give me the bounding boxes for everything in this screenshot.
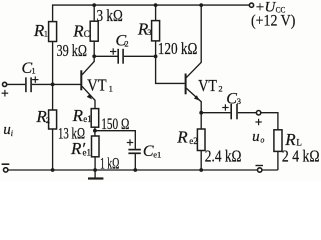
label C2 [116,33,129,50]
node Re2 bottom junction [199,168,203,172]
resistor R3 [152,5,160,56]
svg-text:13 kΩ: 13 kΩ [58,125,85,142]
svg-text:1 kΩ: 1 kΩ [100,156,119,173]
svg-text:R: R [72,21,84,40]
wire top supply rail [53,5,250,22]
svg-text:2: 2 [124,38,128,48]
polarity plus Ce1 [127,139,133,145]
label ui [3,122,13,138]
svg-text:1: 1 [109,83,113,93]
svg-text:e1: e1 [153,149,161,159]
terminal +Ucc [249,3,253,7]
ground [88,170,103,179]
label R2 [35,107,50,126]
svg-text:2: 2 [218,84,222,94]
resistor R'e1 [92,131,100,170]
label C1 [22,60,36,77]
svg-text:150 Ω: 150 Ω [101,116,129,133]
svg-text:2.4 kΩ: 2.4 kΩ [205,147,242,166]
polarity plus output [255,119,261,125]
label C3 [226,91,241,108]
label VT2 [198,76,222,95]
label Re2 [176,128,198,147]
label Re1 [72,106,92,125]
svg-text:e1: e1 [83,114,92,124]
node VT1 collector junction [92,54,96,58]
resistor Re2 [197,113,205,170]
svg-text:VT: VT [198,76,217,95]
label R'e1 [70,139,91,158]
svg-text:e2: e2 [189,136,198,146]
wire input to C1 [7,83,25,85]
label RC [72,21,90,40]
label uo [252,129,264,145]
wire 150 ohm branch to Ce1 [95,131,135,149]
svg-text:e1: e1 [83,148,92,158]
transistor VT1 [81,56,95,108]
node input junction A [51,83,55,87]
wire R3 node down to VT2 base [156,56,185,83]
svg-text:1: 1 [44,28,48,38]
label +12 V [251,13,295,30]
polarity plus C2 [110,48,116,54]
label Ce1 [143,143,161,160]
svg-text:C: C [84,29,90,39]
svg-text:3: 3 [147,27,151,37]
svg-text:1: 1 [31,65,35,75]
node Ce1 bottom junction [133,168,137,172]
terminal output minus [258,168,262,172]
svg-text:2: 2 [46,115,50,125]
label R3 [137,19,152,38]
node VT2 emitter junction [199,111,203,115]
svg-text:3 kΩ: 3 kΩ [97,6,123,25]
svg-text:2 4 kΩ: 2 4 kΩ [282,147,320,166]
svg-text:u: u [3,122,11,138]
resistor RL [274,130,282,170]
terminal output plus [256,111,260,115]
node C2 R3 junction [154,54,158,58]
polarity plus input [2,90,9,97]
label VT1 [87,76,113,95]
polarity plus C3 [222,104,228,110]
polarity minus input [2,163,10,165]
transistor VT2 [186,5,202,113]
node R'e1 bottom junction [93,168,97,172]
node R3 top junction [154,3,158,7]
svg-text:C: C [226,91,237,108]
capacitor C1 [26,77,31,92]
polarity minus output [256,165,264,167]
resistor R2 [49,84,57,170]
resistor R1 [49,22,57,42]
capacitor Ce1 [128,150,140,154]
node R2 bottom junction [51,168,55,172]
wire C2 to VT2 base node [124,55,156,57]
wire C3 to RL [238,113,278,130]
node VT2 collector top junction [199,3,203,7]
terminal input minus [3,168,7,172]
wire R1 bottom to input node [52,42,54,85]
node RC top junction [92,3,96,7]
capacitor C3 [231,104,237,119]
label R1 [33,21,48,40]
wire base VT1 [53,83,81,85]
wire C1 to node A [32,83,53,85]
resistor RC [90,5,98,56]
svg-text:(+12 V): (+12 V) [251,13,295,30]
resistor Re1 [91,109,99,131]
svg-text:u: u [252,129,260,145]
svg-text:i: i [11,129,13,138]
svg-text:R: R [72,106,84,125]
svg-text:R: R [176,128,188,147]
svg-text:120 kΩ: 120 kΩ [158,39,198,58]
svg-text:3: 3 [237,96,241,106]
wire emitter node to C3 [201,112,230,114]
svg-text:VT: VT [87,76,107,95]
wire Ce1 to ground rail [134,154,136,170]
terminal input ui [3,82,7,86]
svg-text:o: o [260,136,264,145]
wire collector node to C2 [94,55,117,57]
label RL [284,130,302,149]
capacitor C2 [118,49,123,64]
wire bottom common rail [8,169,278,171]
svg-text:39 kΩ: 39 kΩ [57,41,88,60]
label +Ucc [256,0,286,16]
node Re1 bottom junction [93,129,97,133]
polarity plus C1 [32,76,38,82]
